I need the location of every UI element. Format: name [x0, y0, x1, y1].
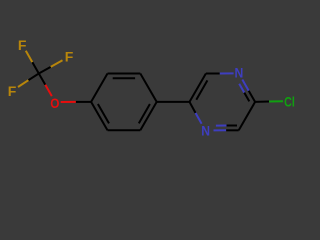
- benzene bond B6-B1 double: [91, 102, 107, 130]
- svg-text:O: O: [50, 95, 59, 111]
- svg-text:Cl: Cl: [284, 94, 295, 110]
- benzene bond B4-B5 double: [140, 102, 156, 130]
- bond O-benzene: [61, 101, 76, 103]
- pyrazine bond BR-N4 double: [226, 129, 239, 131]
- svg-text:N: N: [201, 123, 210, 139]
- pyrazine bond N1-R double: [242, 80, 248, 91]
- benzene bond B3-B4: [140, 74, 156, 102]
- benzene bond B2-B3 double: [108, 73, 141, 75]
- pyrazine bond L-TL double: [190, 74, 206, 102]
- svg-text:F: F: [8, 83, 17, 99]
- bond C-F3: [28, 74, 38, 81]
- bond C-O: [39, 74, 46, 85]
- chemical structure drawing: 2-chloro-5-[4-(trifluoromethoxy)phenyl]pyrazine: [0, 0, 300, 176]
- bond C-F2: [39, 67, 51, 74]
- svg-text:F: F: [65, 49, 74, 65]
- pyrazine bond N4-L: [196, 113, 202, 124]
- svg-text:F: F: [18, 37, 27, 53]
- pyrazine bond R-BR: [239, 102, 255, 130]
- bond C-F1: [32, 62, 39, 73]
- bond R-Cl: [255, 101, 269, 103]
- benzene bond B5-B6: [108, 129, 141, 131]
- bond benzene-pyrazine link: [157, 101, 190, 103]
- svg-text:N: N: [235, 65, 244, 81]
- benzene bond B1-B2: [91, 74, 107, 102]
- pyrazine bond TL-N1: [206, 73, 220, 75]
